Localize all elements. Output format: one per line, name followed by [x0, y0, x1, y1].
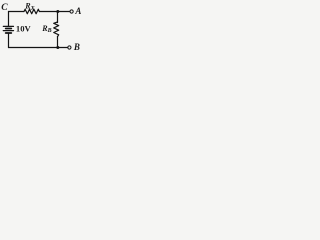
- resistor R_B: [54, 22, 59, 37]
- svg-text:A: A: [74, 6, 81, 16]
- battery V1 plate short bottom (thick): [6, 32, 12, 34]
- wire top horizontal right segment: [39, 11, 70, 13]
- resistor R_X: [24, 9, 39, 14]
- background: [0, 0, 84, 61]
- battery V1 plate short (thick): [6, 28, 12, 30]
- terminal A circle: [70, 10, 73, 13]
- wire vertical branch lower: [57, 37, 59, 48]
- wire top horizontal left segment: [9, 11, 25, 13]
- junction dot top (node at R_B top): [56, 10, 59, 13]
- svg-text:B: B: [73, 42, 80, 52]
- svg-text:10V: 10V: [16, 24, 32, 34]
- battery V1 plate long top: [3, 25, 13, 27]
- wire bottom horizontal rail: [9, 47, 68, 49]
- svg-text:C: C: [1, 3, 8, 13]
- battery V1 plate long lower: [3, 30, 13, 32]
- junction dot bottom (node at R_B bottom): [56, 46, 59, 49]
- wire vertical branch upper: [57, 12, 59, 23]
- wire top-left vertical (node C to battery +): [8, 12, 10, 27]
- wire bottom-left vertical (battery - to bottom rail): [8, 33, 10, 47]
- terminal B circle: [68, 46, 71, 49]
